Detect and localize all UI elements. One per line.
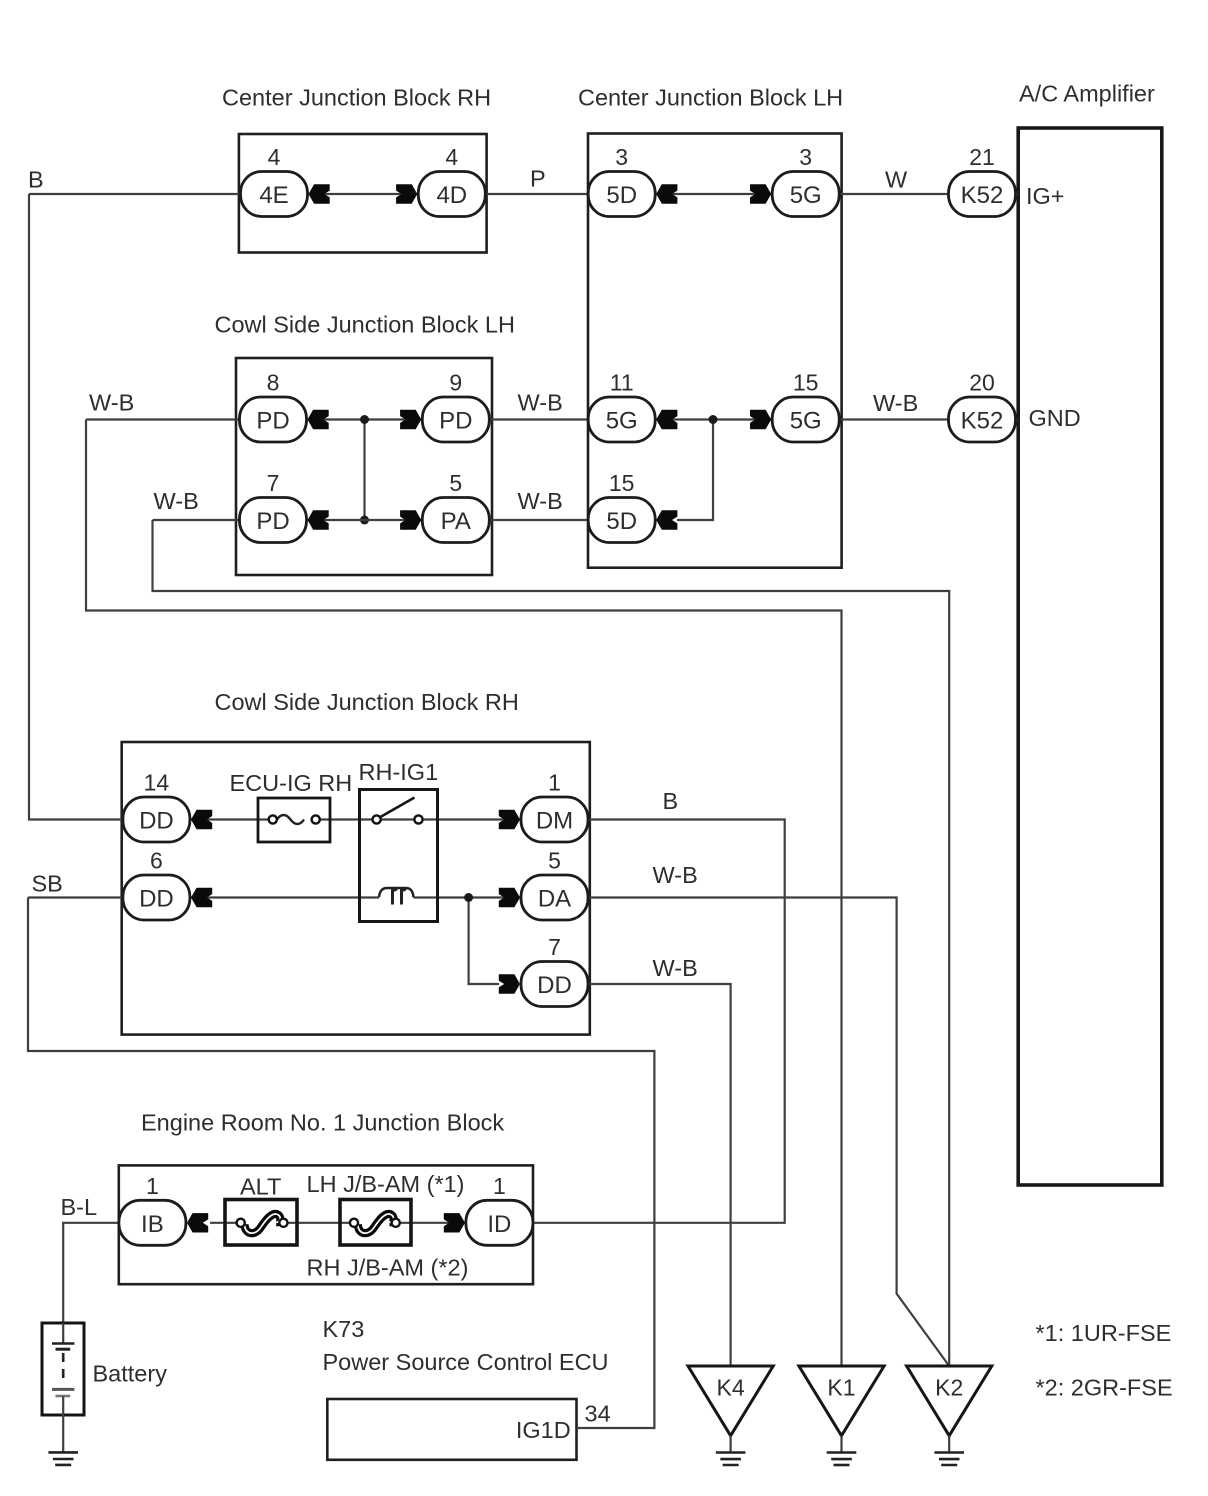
connector 5G pin15 — [772, 397, 839, 442]
connector 5G pin3 — [772, 172, 839, 217]
svg-text:Power Source Control ECU: Power Source Control ECU — [323, 1349, 609, 1375]
svg-text:7: 7 — [548, 934, 561, 960]
svg-text:K52: K52 — [961, 408, 1004, 435]
ground symbol battery — [48, 1452, 78, 1465]
svg-text:11: 11 — [610, 370, 634, 396]
svg-text:K52: K52 — [961, 182, 1004, 209]
wire W-B 5G15 to K52-20 — [839, 418, 948, 420]
wire ECU-IG row fuse to DM1 — [316, 818, 521, 820]
connector K52 pin21 — [949, 172, 1016, 217]
svg-text:4: 4 — [445, 144, 458, 170]
svg-text:W: W — [885, 167, 908, 193]
wire K4 apex stub — [729, 1436, 731, 1453]
wire 4E-4D internal — [308, 193, 419, 195]
connector PA pin5 — [422, 498, 489, 543]
connector ID pin1 — [466, 1200, 533, 1245]
wire IB to ALT fuse — [210, 1222, 241, 1224]
arrow into PD9 — [400, 410, 421, 429]
wire B-L battery to IB — [63, 1223, 119, 1323]
svg-text:1: 1 — [493, 1173, 506, 1199]
ground point K1 — [799, 1366, 884, 1436]
svg-text:P: P — [530, 166, 546, 192]
battery dashed cell link — [62, 1353, 65, 1383]
wire battery to ground — [62, 1415, 64, 1452]
connector 4E — [241, 172, 308, 217]
wire W-B bus PD7-left down to K2 — [153, 520, 950, 1366]
svg-text:PD: PD — [256, 508, 289, 535]
svg-text:34: 34 — [585, 1401, 611, 1427]
wire W 5G to K52 — [839, 193, 948, 195]
wire K52-21 stub to A/C Amplifier — [1016, 193, 1019, 195]
connector 5D pin15 — [588, 498, 655, 543]
svg-text:8: 8 — [267, 370, 280, 396]
block Cowl Side Junction Block RH — [122, 742, 590, 1035]
connector DD pin6 — [123, 875, 190, 920]
svg-text:14: 14 — [144, 770, 170, 796]
svg-text:B-L: B-L — [61, 1194, 98, 1220]
svg-text:W-B: W-B — [653, 955, 698, 981]
battery internal top lead — [62, 1323, 64, 1344]
arrow into DD6 — [191, 888, 212, 907]
svg-text:GND: GND — [1029, 405, 1081, 431]
arrow into IB — [187, 1213, 208, 1232]
svg-text:A/C Amplifier: A/C Amplifier — [1019, 81, 1155, 107]
arrow into 5D pin3 — [656, 184, 677, 203]
block A/C Amplifier — [1018, 128, 1162, 1185]
svg-text:B: B — [663, 788, 679, 814]
svg-text:W-B: W-B — [518, 488, 563, 514]
svg-text:5G: 5G — [606, 408, 638, 435]
connector PD pin8 — [240, 397, 307, 442]
battery plate long bottom — [52, 1388, 74, 1391]
battery box — [42, 1323, 84, 1415]
wire junction column Cowl LH — [363, 420, 365, 521]
svg-text:Center Junction Block LH: Center Junction Block LH — [578, 85, 843, 111]
wire B from node B down-right to DD14 — [29, 193, 242, 195]
relay RH-IG1 box — [360, 790, 438, 922]
connector DD pin14 — [123, 797, 190, 842]
svg-text:6: 6 — [150, 848, 163, 874]
svg-text:1: 1 — [146, 1173, 159, 1199]
svg-text:5D: 5D — [606, 508, 637, 535]
battery plate long top — [52, 1342, 74, 1345]
svg-text:W-B: W-B — [653, 862, 698, 888]
svg-text:Center Junction Block RH: Center Junction Block RH — [222, 85, 491, 111]
relay RH-IG1 switch contact — [373, 798, 423, 824]
svg-text:DD: DD — [537, 972, 572, 999]
arrow into PD7 — [308, 510, 329, 529]
wire W-B PA5 to 5D15 — [489, 519, 588, 521]
wire P 4D to 5D — [485, 193, 589, 195]
svg-text:5: 5 — [548, 848, 561, 874]
svg-text:4: 4 — [268, 144, 281, 170]
connector K52 pin20 — [949, 397, 1016, 442]
svg-text:PA: PA — [441, 508, 471, 535]
battery plate short top — [56, 1348, 71, 1351]
svg-text:1: 1 — [548, 770, 561, 796]
svg-text:RH-IG1: RH-IG1 — [359, 759, 439, 785]
svg-text:W-B: W-B — [154, 488, 199, 514]
fuse ECU-IG RH element — [269, 815, 320, 824]
ground point K2 — [907, 1366, 992, 1436]
svg-text:DM: DM — [536, 808, 573, 835]
svg-text:ECU-IG RH: ECU-IG RH — [230, 770, 353, 796]
svg-text:3: 3 — [615, 144, 628, 170]
arrow into DM1 — [499, 810, 520, 829]
fuse ECU-IG RH box — [258, 798, 330, 842]
svg-text:IB: IB — [141, 1211, 164, 1238]
fuse J/B-AM fusible link element — [350, 1214, 400, 1233]
wire K1 apex stub — [840, 1436, 842, 1453]
arrow into 5D15 — [656, 510, 677, 529]
svg-text:*1: 1UR-FSE: *1: 1UR-FSE — [1036, 1320, 1172, 1346]
arrow into DD7 — [499, 974, 520, 993]
svg-text:Cowl Side Junction Block RH: Cowl Side Junction Block RH — [215, 689, 519, 715]
svg-text:W-B: W-B — [873, 390, 918, 416]
svg-text:Cowl Side Junction Block LH: Cowl Side Junction Block LH — [215, 312, 515, 338]
svg-text:ID: ID — [487, 1211, 511, 1238]
svg-text:DD: DD — [139, 808, 174, 835]
arrow into PA5 — [400, 510, 421, 529]
wire W-B PD9 to 5G11 — [489, 418, 588, 420]
svg-text:RH J/B-AM (*2): RH J/B-AM (*2) — [307, 1255, 469, 1281]
svg-text:B: B — [28, 167, 44, 193]
fuse ALT fusible link element — [237, 1214, 288, 1233]
wire PD7-PA5 internal — [307, 519, 423, 521]
wire 5G11-5G15 internal — [655, 418, 772, 420]
arrow into PD8 — [308, 410, 329, 429]
svg-text:IG1D: IG1D — [516, 1417, 571, 1443]
connector DM pin1 — [521, 797, 588, 842]
wire SB row coil to DA5 — [414, 896, 522, 898]
wire W-B bus PD8-left down to K1 — [86, 420, 842, 1367]
connector 5G pin11 — [588, 397, 655, 442]
block Engine Room No. 1 Junction Block — [119, 1165, 533, 1284]
junction 5G11-5G15 row — [709, 415, 718, 424]
wire SB row DD6 to coil — [28, 896, 379, 898]
svg-text:K73: K73 — [323, 1316, 365, 1342]
wire ECU-IG row DD14 to fuse — [123, 818, 273, 820]
svg-text:9: 9 — [449, 370, 462, 396]
arrow into 5G15 — [750, 410, 771, 429]
svg-text:DA: DA — [538, 886, 571, 913]
wire ALT to J/B-AM — [288, 1222, 355, 1224]
svg-text:5D: 5D — [606, 182, 637, 209]
wire W-B into PD7 from left — [153, 519, 240, 521]
svg-text:4D: 4D — [436, 182, 467, 209]
svg-text:Engine Room No. 1 Junction Blo: Engine Room No. 1 Junction Block — [141, 1110, 504, 1136]
junction PD8-PD9 row — [360, 415, 369, 424]
connector 4D — [418, 172, 485, 217]
svg-text:PD: PD — [439, 408, 472, 435]
svg-text:K2: K2 — [935, 1375, 963, 1401]
svg-text:*2: 2GR-FSE: *2: 2GR-FSE — [1036, 1375, 1173, 1401]
wire relay output junction down to DD7 — [469, 898, 499, 985]
block Center Junction Block RH — [239, 134, 487, 253]
wire K52-20 stub to A/C Amplifier — [1016, 418, 1019, 420]
svg-text:W-B: W-B — [518, 390, 563, 416]
battery internal bottom lead — [62, 1396, 64, 1415]
svg-text:PD: PD — [256, 408, 289, 435]
svg-text:SB: SB — [32, 871, 63, 897]
arrow into 5G11 — [656, 410, 677, 429]
wire W-B DD7 to K4 — [588, 984, 731, 1366]
svg-text:LH J/B-AM (*1): LH J/B-AM (*1) — [307, 1171, 465, 1197]
wire W-B DA5 to K2 with diagonal — [588, 898, 949, 1367]
arrow into 4E — [309, 184, 330, 203]
arrow into 5G pin3 — [750, 184, 771, 203]
wire K2 apex stub — [948, 1436, 950, 1453]
connector DD pin7 — [521, 962, 588, 1007]
svg-text:21: 21 — [969, 144, 995, 170]
battery plate short bottom — [56, 1395, 71, 1398]
svg-text:5: 5 — [449, 470, 462, 496]
wire PD8-PD9 internal — [307, 418, 423, 420]
wire junction column Center LH down to 5D15 — [677, 420, 713, 521]
connector 5D pin3 — [588, 172, 655, 217]
wire J/B-AM to ID — [400, 1222, 466, 1224]
svg-text:5G: 5G — [790, 182, 822, 209]
ground point K4 — [688, 1366, 773, 1436]
arrow into ID — [444, 1213, 465, 1232]
block Cowl Side Junction Block LH — [236, 358, 492, 575]
svg-text:20: 20 — [969, 370, 995, 396]
svg-text:5G: 5G — [790, 408, 822, 435]
connector DA pin5 — [521, 875, 588, 920]
svg-text:Battery: Battery — [93, 1361, 168, 1387]
relay RH-IG1 coil — [379, 888, 414, 905]
svg-text:15: 15 — [793, 370, 819, 396]
arrow into DA5 — [499, 888, 520, 907]
svg-text:15: 15 — [609, 470, 635, 496]
svg-text:IG+: IG+ — [1026, 183, 1065, 209]
svg-text:K1: K1 — [827, 1375, 855, 1401]
svg-text:W-B: W-B — [89, 390, 134, 416]
wire W-B into PD8 from left — [86, 418, 240, 420]
svg-text:4E: 4E — [259, 182, 288, 209]
svg-text:ALT: ALT — [240, 1174, 281, 1200]
wire SB down to IG1D — [28, 898, 654, 1429]
ground symbol K4 — [716, 1453, 746, 1466]
connector PD pin9 — [422, 397, 489, 442]
fuse J/B-AM box — [340, 1200, 411, 1246]
block Center Junction Block LH — [588, 134, 842, 568]
ground symbol K2 — [934, 1453, 964, 1466]
svg-text:K4: K4 — [717, 1375, 745, 1401]
svg-text:3: 3 — [799, 144, 812, 170]
connector PD pin7 — [240, 498, 307, 543]
connector IB pin1 — [119, 1200, 186, 1245]
ground symbol K1 — [827, 1453, 857, 1466]
svg-text:7: 7 — [267, 470, 280, 496]
block K73 Power Source Control ECU — [327, 1399, 576, 1460]
wire 5D-5G internal — [655, 193, 772, 195]
wire B DM1 right down to ID — [533, 820, 785, 1223]
junction relay output — [464, 893, 473, 902]
junction PD7-PA5 row — [360, 516, 369, 525]
arrow into DD14 — [191, 810, 212, 829]
svg-text:DD: DD — [139, 886, 174, 913]
fuse ALT box — [225, 1200, 297, 1246]
arrow into 4D — [396, 184, 417, 203]
